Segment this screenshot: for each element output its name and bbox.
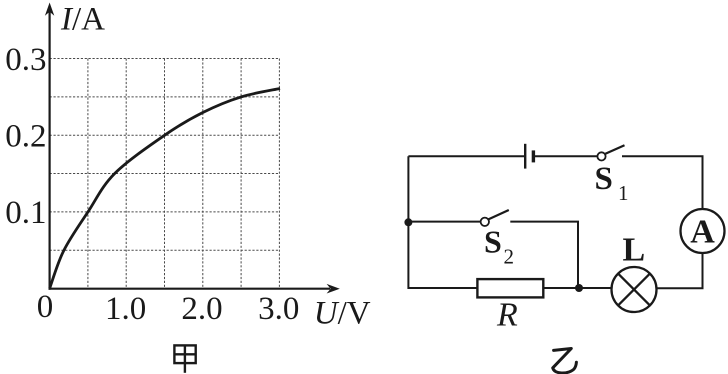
wire battery to switch S1 [533, 155, 597, 157]
wire resistor to bottom-left corner up to top-left [408, 156, 477, 288]
switch S2 [481, 210, 509, 226]
battery cell [525, 144, 533, 169]
lamp L [612, 267, 657, 312]
x-axis U [49, 284, 340, 294]
junction node B (R / S2 / lamp) [575, 284, 583, 292]
svg-text:0.2: 0.2 [5, 118, 46, 154]
svg-text:3.0: 3.0 [258, 291, 299, 327]
wire S1 to top-right corner down to ammeter [622, 156, 703, 209]
caption 乙 (circuit) [553, 349, 577, 374]
junction node A (left, S2 branch) [404, 218, 412, 226]
svg-text:2.0: 2.0 [181, 291, 222, 327]
wire node A to switch S2 [408, 221, 480, 223]
svg-text:A: A [690, 214, 715, 251]
label S1 [595, 161, 629, 205]
svg-text:R: R [496, 297, 518, 334]
svg-text:S: S [484, 224, 502, 260]
svg-text:1: 1 [618, 181, 629, 205]
I-U characteristic curve [50, 89, 280, 289]
svg-text:0.1: 0.1 [5, 195, 46, 231]
y-axis I [45, 3, 54, 290]
ammeter U1 (A) [681, 209, 725, 253]
svg-text:0: 0 [37, 289, 54, 325]
svg-text:U/V: U/V [314, 296, 371, 332]
svg-text:S: S [595, 161, 613, 197]
resistor R [477, 279, 543, 297]
graph grid [50, 59, 280, 289]
svg-text:2: 2 [504, 245, 515, 269]
svg-text:1.0: 1.0 [105, 291, 146, 327]
svg-text:L: L [623, 231, 646, 268]
wire top-left (battery to left corner) [408, 155, 525, 157]
switch S1 [597, 145, 624, 160]
caption 甲 (graph) [174, 345, 195, 372]
svg-text:0.3: 0.3 [5, 42, 46, 78]
wire ammeter to bottom-right corner to lamp [657, 253, 703, 289]
wire lamp to junction [543, 287, 611, 289]
svg-text:I/A: I/A [60, 2, 105, 38]
wire S2 to junction node B [510, 222, 578, 288]
label S2 [484, 224, 514, 269]
